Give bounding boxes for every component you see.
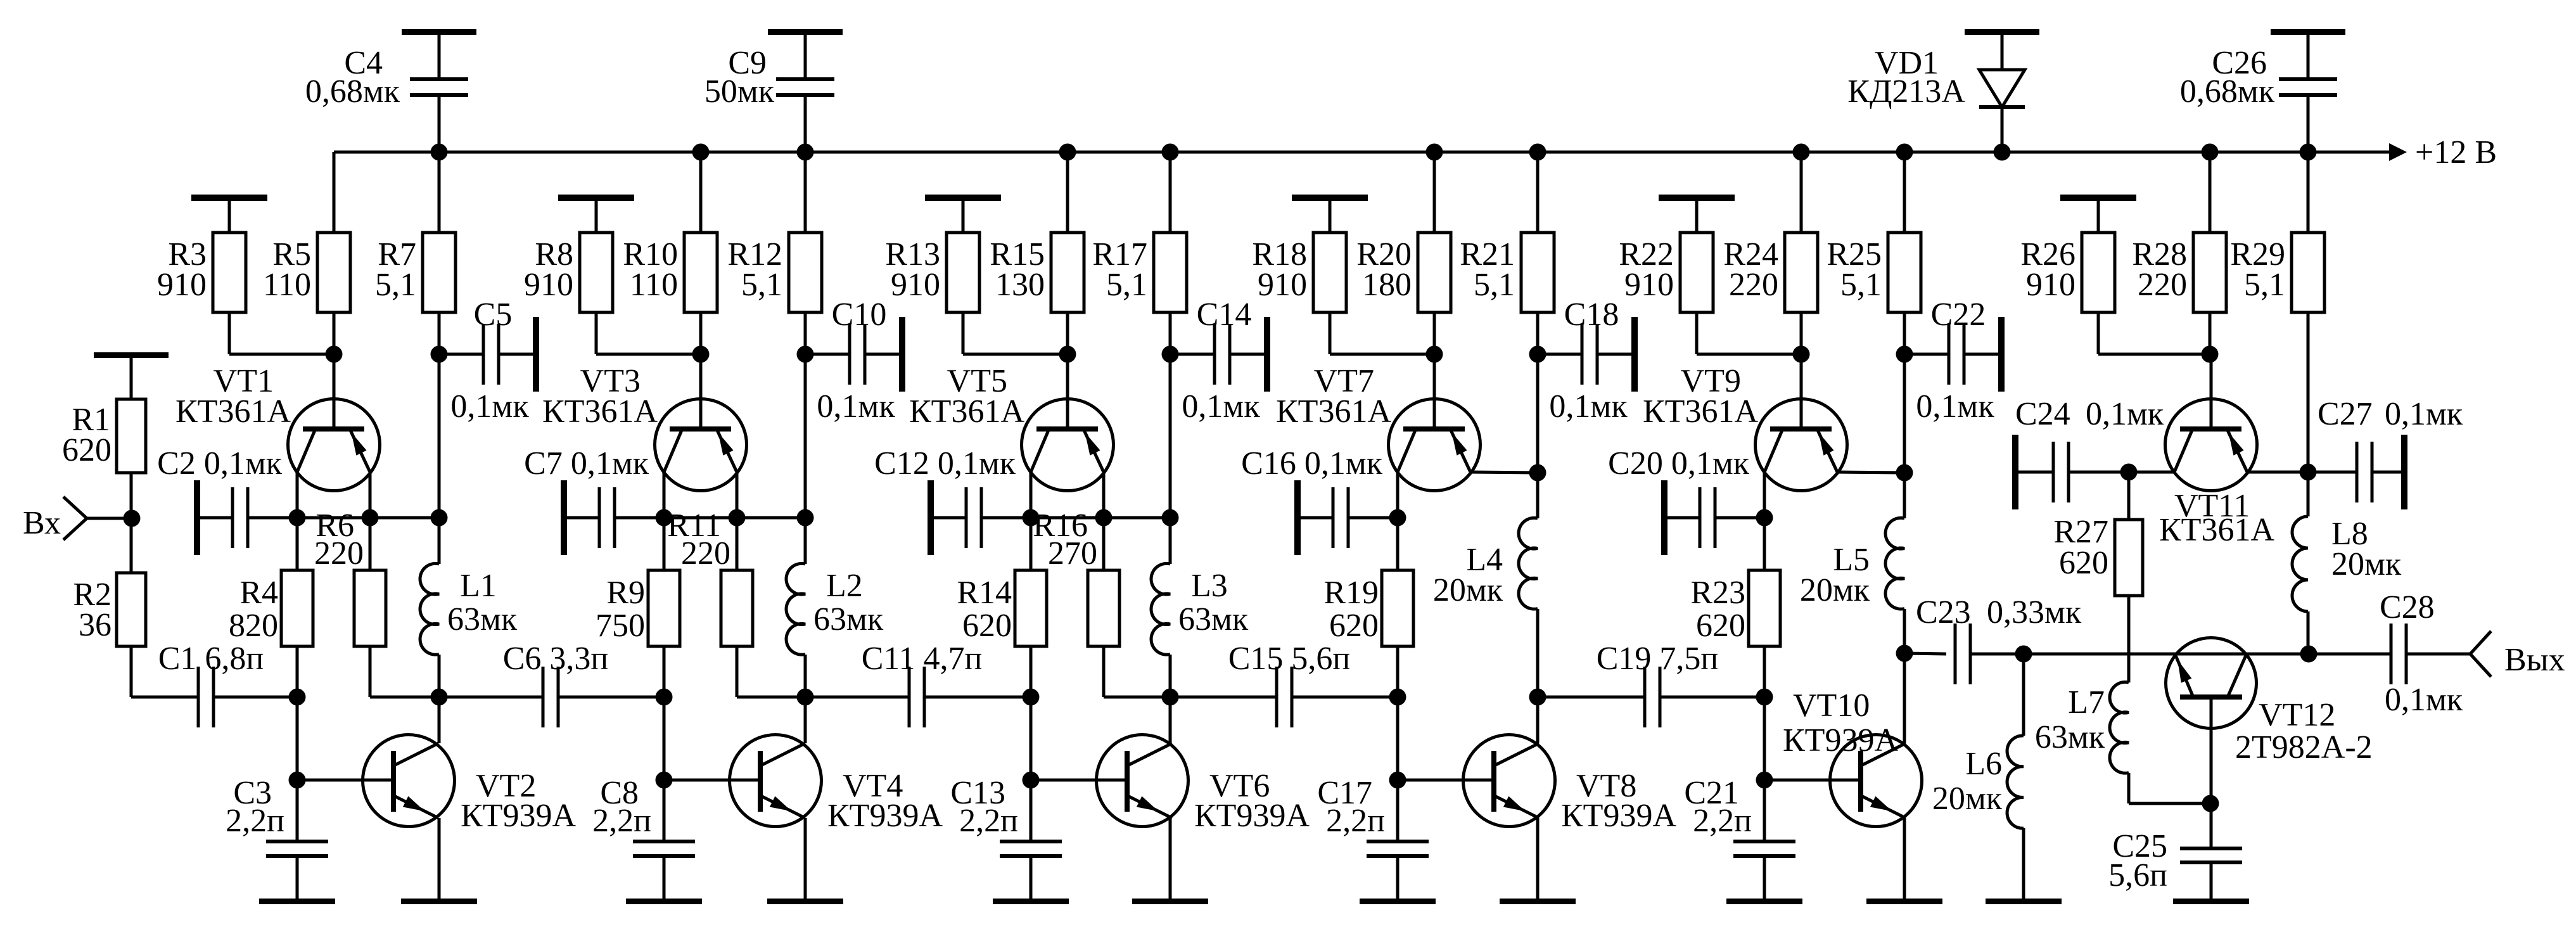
svg-text:КТ361А: КТ361А <box>2159 512 2274 548</box>
svg-text:2,2п: 2,2п <box>226 803 284 839</box>
svg-text:R23: R23 <box>1690 575 1745 611</box>
svg-text:L1: L1 <box>460 568 497 604</box>
svg-text:5,1: 5,1 <box>1474 267 1515 303</box>
svg-text:220: 220 <box>2138 267 2187 303</box>
svg-text:0,33мк: 0,33мк <box>1987 594 2082 630</box>
svg-text:C10: C10 <box>832 297 887 333</box>
svg-text:0,1мк: 0,1мк <box>2385 396 2463 432</box>
svg-text:36: 36 <box>79 607 112 643</box>
svg-text:0,1мк: 0,1мк <box>2086 396 2164 432</box>
svg-text:КТ361А: КТ361А <box>1276 393 1391 430</box>
svg-text:C19 7,5п: C19 7,5п <box>1597 641 1719 677</box>
svg-text:КТ939А: КТ939А <box>1783 722 1898 758</box>
svg-text:0,1мк: 0,1мк <box>1182 388 1260 425</box>
svg-text:20мк: 20мк <box>1800 572 1870 608</box>
svg-text:5,6п: 5,6п <box>2108 857 2167 893</box>
svg-text:C1 6,8п: C1 6,8п <box>158 641 264 677</box>
svg-text:Вх: Вх <box>23 505 61 541</box>
svg-text:110: 110 <box>630 267 678 303</box>
svg-text:820: 820 <box>229 608 278 644</box>
svg-text:КТ939А: КТ939А <box>827 798 943 834</box>
svg-text:C22: C22 <box>1931 297 1986 333</box>
svg-text:2,2п: 2,2п <box>959 803 1018 839</box>
svg-text:+12 В: +12 В <box>2415 134 2497 170</box>
svg-text:20мк: 20мк <box>1433 572 1503 608</box>
svg-text:0,1мк: 0,1мк <box>1916 388 1994 425</box>
svg-text:C2 0,1мк: C2 0,1мк <box>157 445 283 482</box>
svg-text:2,2п: 2,2п <box>592 803 651 839</box>
svg-text:2,2п: 2,2п <box>1693 803 1752 839</box>
svg-text:5,1: 5,1 <box>2244 267 2285 303</box>
svg-text:C11 4,7п: C11 4,7п <box>862 641 983 677</box>
svg-text:910: 910 <box>524 267 573 303</box>
svg-text:VT10: VT10 <box>1793 688 1870 724</box>
svg-text:КТ361А: КТ361А <box>909 393 1024 430</box>
svg-text:КД213А: КД213А <box>1847 74 1965 110</box>
svg-text:VT12: VT12 <box>2259 697 2335 733</box>
svg-text:C14: C14 <box>1197 297 1252 333</box>
svg-text:R4: R4 <box>239 575 278 611</box>
svg-text:110: 110 <box>263 267 311 303</box>
svg-text:2,2п: 2,2п <box>1326 803 1385 839</box>
svg-text:620: 620 <box>2059 545 2108 581</box>
svg-text:180: 180 <box>1362 267 1412 303</box>
svg-text:0,1мк: 0,1мк <box>817 388 895 425</box>
svg-text:L2: L2 <box>826 568 863 604</box>
svg-text:220: 220 <box>1729 267 1778 303</box>
svg-text:620: 620 <box>1696 608 1745 644</box>
svg-text:0,68мк: 0,68мк <box>305 74 400 110</box>
svg-text:5,1: 5,1 <box>375 267 416 303</box>
svg-text:C18: C18 <box>1564 297 1619 333</box>
svg-text:0,1мк: 0,1мк <box>450 388 529 425</box>
svg-text:C28: C28 <box>2380 589 2435 625</box>
svg-text:C7 0,1мк: C7 0,1мк <box>524 445 649 482</box>
svg-text:910: 910 <box>1624 267 1674 303</box>
svg-text:КТ939А: КТ939А <box>461 798 576 834</box>
svg-text:L7: L7 <box>2068 684 2105 720</box>
svg-text:20мк: 20мк <box>2331 546 2402 582</box>
svg-text:5,1: 5,1 <box>1840 267 1882 303</box>
svg-text:220: 220 <box>314 535 364 572</box>
svg-text:910: 910 <box>891 267 940 303</box>
svg-text:C27: C27 <box>2318 396 2373 432</box>
svg-text:R19: R19 <box>1323 575 1379 611</box>
svg-text:R14: R14 <box>957 575 1012 611</box>
svg-text:63мк: 63мк <box>447 601 518 637</box>
svg-text:КТ361А: КТ361А <box>175 393 291 430</box>
svg-text:220: 220 <box>681 535 730 572</box>
svg-text:910: 910 <box>1258 267 1307 303</box>
svg-text:C24: C24 <box>2015 396 2070 432</box>
svg-text:620: 620 <box>62 432 112 468</box>
svg-text:C23: C23 <box>1916 594 1971 630</box>
svg-text:L6: L6 <box>1965 746 2002 782</box>
svg-text:50мк: 50мк <box>705 74 775 110</box>
svg-text:КТ361А: КТ361А <box>542 393 658 430</box>
svg-text:2Т982А-2: 2Т982А-2 <box>2235 729 2373 765</box>
svg-text:0,1мк: 0,1мк <box>1549 388 1628 425</box>
svg-text:L3: L3 <box>1191 568 1228 604</box>
svg-text:C6 3,3п: C6 3,3п <box>503 641 609 677</box>
svg-text:0,68мк: 0,68мк <box>2180 74 2275 110</box>
svg-text:C20 0,1мк: C20 0,1мк <box>1608 445 1750 482</box>
svg-text:270: 270 <box>1048 535 1097 572</box>
svg-text:КТ939А: КТ939А <box>1561 798 1676 834</box>
svg-text:20мк: 20мк <box>1932 781 2003 817</box>
svg-text:130: 130 <box>995 267 1045 303</box>
svg-text:R9: R9 <box>606 575 645 611</box>
svg-text:Вых: Вых <box>2504 642 2565 678</box>
svg-text:C12 0,1мк: C12 0,1мк <box>874 445 1016 482</box>
svg-text:750: 750 <box>596 608 645 644</box>
svg-text:КТ939А: КТ939А <box>1194 798 1310 834</box>
svg-text:КТ361А: КТ361А <box>1643 393 1758 430</box>
svg-text:63мк: 63мк <box>1178 601 1249 637</box>
svg-text:63мк: 63мк <box>2035 719 2105 755</box>
svg-text:910: 910 <box>2026 267 2075 303</box>
svg-text:C5: C5 <box>474 297 513 333</box>
svg-text:5,1: 5,1 <box>741 267 782 303</box>
svg-text:C16 0,1мк: C16 0,1мк <box>1241 445 1383 482</box>
svg-text:620: 620 <box>962 608 1012 644</box>
svg-text:910: 910 <box>157 267 207 303</box>
svg-text:620: 620 <box>1329 608 1379 644</box>
svg-text:C15 5,6п: C15 5,6п <box>1228 641 1351 677</box>
svg-text:5,1: 5,1 <box>1106 267 1147 303</box>
svg-text:63мк: 63мк <box>813 601 884 637</box>
svg-text:0,1мк: 0,1мк <box>2385 682 2463 718</box>
